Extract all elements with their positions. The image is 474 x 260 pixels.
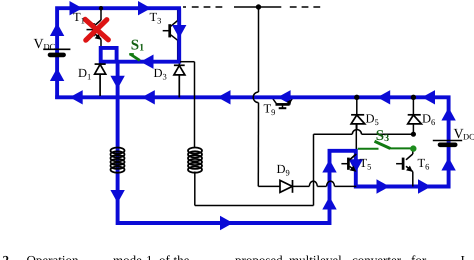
svg-text:multilevel: multilevel <box>289 253 342 260</box>
svg-text:V: V <box>34 37 44 52</box>
svg-text:I: I <box>461 253 465 260</box>
svg-text:1: 1 <box>146 253 153 260</box>
svg-text:2.: 2. <box>3 253 13 260</box>
svg-text:DC: DC <box>44 42 56 52</box>
svg-text:proposed: proposed <box>235 253 283 260</box>
svg-text:of: of <box>159 253 171 260</box>
svg-text:the: the <box>174 253 190 260</box>
svg-text:Operation: Operation <box>27 253 79 260</box>
svg-text:for: for <box>411 253 427 260</box>
svg-text:DC: DC <box>463 132 474 142</box>
svg-text:mode: mode <box>113 253 142 260</box>
svg-text:converter: converter <box>352 253 402 260</box>
